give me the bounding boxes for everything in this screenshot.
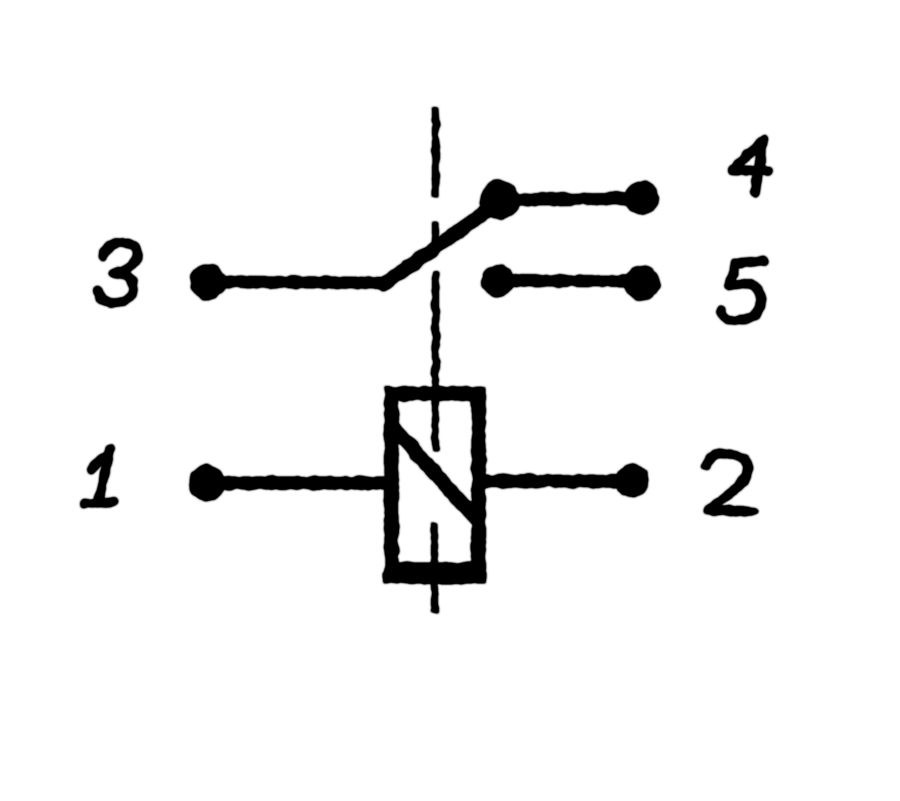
dashed actuator line segment 4 [432,523,438,612]
dashed actuator line segment 2 [433,222,439,252]
dashed actuator line segment 1 [433,108,439,196]
wire to terminal 4 [500,199,642,200]
coil diagonal stroke [395,429,478,521]
terminal 5 dot [625,266,659,300]
pin label 3 [98,242,138,303]
wire to terminal 5 [498,281,642,282]
terminal 4 dot [626,182,659,215]
pin label 4 [733,139,768,193]
wire coil to terminal 2 [477,475,632,488]
dashed actuator line segment 3 [433,273,439,450]
terminal 5 contact dot [483,266,514,297]
relay coil K1 body [392,394,479,570]
pin label 5 [721,261,764,321]
wire from terminal 3 [208,282,387,284]
terminal 3 dot [191,265,226,300]
moving contact dot [481,181,519,219]
wire terminal 1 to coil [207,477,393,489]
terminal 2 dot [616,465,648,497]
pin label 1 [84,449,114,504]
terminal 1 dot [190,466,225,501]
coil bottom edge double stroke [384,571,486,583]
pin label 2 [706,453,753,511]
switch arm (movable contact from terminal 3) [385,201,501,284]
